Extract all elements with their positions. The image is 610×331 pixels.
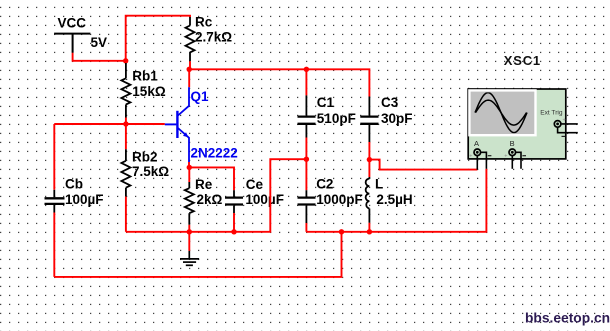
svg-text:A: A [474,139,479,148]
svg-text:2.5µH: 2.5µH [376,192,412,207]
wire base node horizontal [54,123,165,125]
svg-text:C3: C3 [381,95,399,110]
capacitor C2 [305,159,307,190]
node junction base [123,121,128,126]
node junction bottom wire T [339,229,344,234]
node junction L bottom [367,229,372,234]
svg-text:+: + [504,153,507,159]
svg-text:XSC1: XSC1 [504,53,541,68]
svg-text:Re: Re [195,177,213,192]
channel A minus mark [488,155,492,157]
wire emitter node to Ce [189,167,234,190]
inductor L [368,160,370,177]
node junction Rc/collector [187,67,192,72]
scope waveform trace 2 [476,100,527,125]
channel B minus mark [522,155,526,157]
channel A terminal [474,149,481,156]
capacitor Cb [53,124,55,190]
resistor Rb2 [125,124,127,149]
resistor Re [188,167,190,182]
resistor Rb1 [125,61,127,63]
svg-text:2N2222: 2N2222 [191,146,238,161]
wire bottom return [54,232,341,277]
resistor Rc [186,17,195,61]
svg-text:100µF: 100µF [65,192,104,207]
svg-text:5V: 5V [91,35,108,50]
channel B terminal [509,149,516,156]
Ext Trig terminal [554,121,561,128]
svg-text:Rb1: Rb1 [132,68,158,83]
channel A pins [477,152,486,169]
svg-text:bbs.eetop.cn: bbs.eetop.cn [525,311,610,326]
scope screen [469,90,535,135]
svg-text:C1: C1 [317,95,335,110]
wire VCC stem to Rb1 branch [73,53,126,61]
wire Rc bottom to collector node [189,61,191,69]
svg-text:Rb2: Rb2 [132,149,158,164]
ground rail right [306,169,486,232]
svg-text:L: L [375,176,383,191]
node junction emitter [187,165,192,170]
terminal plus marks [469,118,565,160]
svg-text:Cb: Cb [65,177,83,192]
wire collector stub [188,69,190,87]
wire collector node across to C1 and C3 top [189,69,369,96]
channel B pins [512,152,521,169]
scope waveform trace 1 [475,93,527,133]
svg-text:Ce: Ce [246,177,264,192]
node junction Ce bottom [231,229,236,234]
node junction VCC/Rb1 [123,58,128,63]
wire emitter stub [188,162,190,167]
node junction Re bottom / ground [187,229,192,234]
svg-text:2kΩ: 2kΩ [197,192,223,207]
transistor Q1 [165,87,189,162]
node junction C1/C2 [304,157,309,162]
svg-text:C2: C2 [316,176,333,191]
svg-text:VCC: VCC [58,15,87,30]
svg-text:100µF: 100µF [245,192,284,207]
capacitor C1 [305,69,307,95]
svg-text:B: B [510,139,515,148]
svg-text:Ext Trig: Ext Trig [540,110,563,117]
Q1 emitter arrow [183,132,188,137]
node junction C1 top [304,67,309,72]
capacitor C3 [360,97,378,143]
svg-text:7.5kΩ: 7.5kΩ [132,164,169,179]
svg-text:30pF: 30pF [381,111,413,126]
svg-text:1000pF: 1000pF [316,192,363,207]
ground rail left [126,159,307,232]
node junction C3/L [367,157,372,162]
ground [188,232,190,251]
wire VCC node up and right to Rc top [126,16,190,61]
Ext Trig minus mark [562,135,566,137]
Ext Trig pins [558,124,578,133]
capacitor Ce [225,190,243,213]
svg-text:Q1: Q1 [191,89,210,104]
wire output node to scope channel A [369,160,477,170]
oscilloscope XSC1 body [468,89,566,159]
svg-text:Rc: Rc [195,14,213,29]
svg-text:15kΩ: 15kΩ [132,84,166,99]
svg-text:+: + [563,118,566,124]
svg-text:510pF: 510pF [317,111,356,126]
power source VCC symbol [54,34,90,53]
svg-text:2.7kΩ: 2.7kΩ [195,29,232,44]
svg-text:+: + [469,153,472,159]
